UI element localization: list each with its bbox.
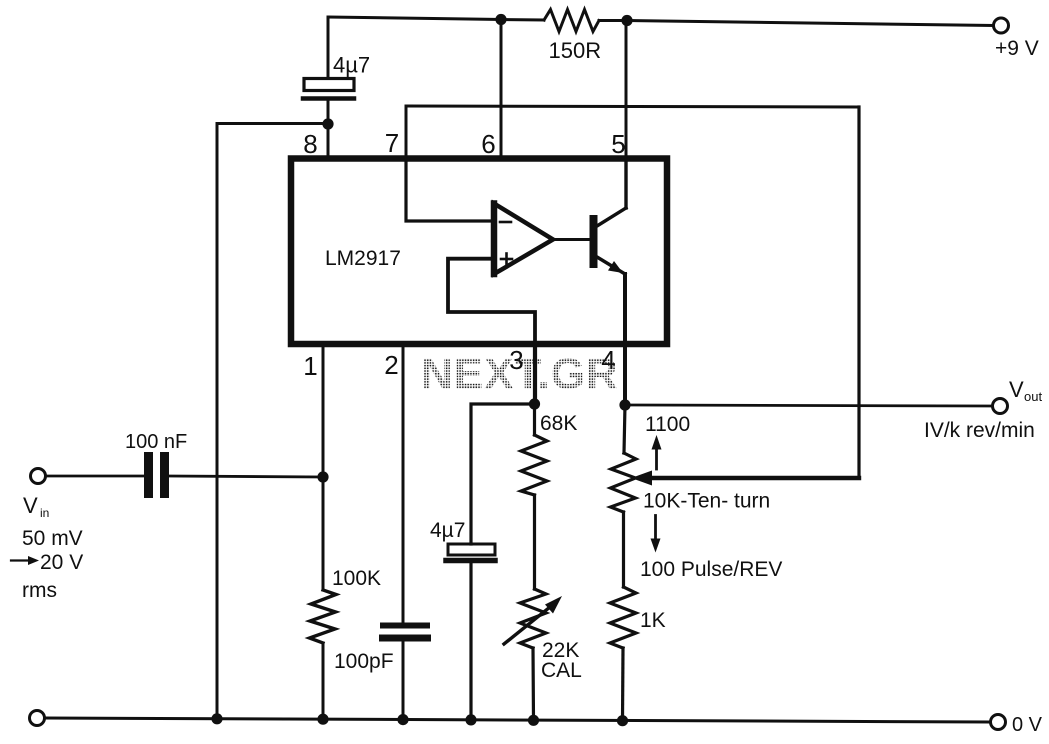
wire top supply rail left segment — [328, 17, 501, 20]
transistor Q1 emitter — [597, 257, 625, 274]
resistor 68K — [521, 435, 547, 495]
potentiometer 22K CAL zigzag — [520, 589, 546, 648]
wire pin5 vertical — [625, 21, 628, 159]
svg-text:4: 4 — [601, 345, 615, 375]
svg-text:100pF: 100pF — [334, 650, 394, 673]
wire pin7 vertical — [405, 106, 408, 158]
resistor 150R — [544, 10, 599, 32]
svg-text:out: out — [1024, 389, 1042, 404]
terminal 0V right — [991, 715, 1006, 730]
wire pin3 junction down to 68K — [533, 404, 536, 435]
resistor 1K — [610, 587, 636, 648]
wire 1K to ground rail — [621, 648, 625, 721]
node junction pin8 — [322, 118, 333, 129]
arrow up — [652, 435, 662, 469]
svg-text:V: V — [23, 493, 38, 518]
svg-text:150R: 150R — [549, 38, 602, 63]
terminal 0V left — [30, 711, 45, 726]
terminal +9V — [994, 18, 1009, 33]
svg-text:100 nF: 100 nF — [125, 431, 187, 453]
svg-text:50 mV: 50 mV — [22, 527, 83, 550]
transistor Q1 collector vertical — [624, 158, 627, 208]
node junction pin5 rail — [621, 15, 632, 26]
wire pin1 vertical — [322, 347, 325, 590]
arrow rms range — [11, 556, 39, 565]
wire pin4 junction to pot — [624, 405, 625, 453]
svg-text:5: 5 — [611, 129, 625, 159]
wire C2 to ground rail — [469, 563, 472, 720]
resistor 100K — [310, 590, 337, 643]
potentiometer 10K ten-turn zigzag — [611, 453, 637, 512]
svg-text:rms: rms — [22, 579, 57, 602]
wire left vertical down to ground rail — [216, 124, 219, 719]
wire pin7 inside box to op-amp minus input — [406, 158, 493, 221]
capacitor C2 4u7 — [446, 544, 495, 561]
wire C3 to pin1 branch — [169, 476, 323, 477]
arrow down — [651, 516, 661, 553]
capacitor C3 100nF — [144, 452, 169, 498]
wire op-amp plus input feedback — [448, 259, 535, 347]
node junction pin4 Vout — [619, 399, 630, 410]
svg-text:1100: 1100 — [645, 413, 690, 436]
potentiometer 22K arrowhead — [545, 596, 562, 614]
node junction pin3 — [529, 398, 540, 409]
wire 68K to 22K pot — [533, 495, 536, 589]
wire junction pin8 to left vertical — [217, 122, 328, 125]
op-amp feedback top wire from pin7 — [406, 106, 859, 107]
svg-text:6: 6 — [481, 129, 495, 159]
transistor Q1 base bar — [590, 215, 598, 268]
wire op-amp output to transistor base — [553, 238, 590, 241]
ground rail 0V — [45, 718, 990, 722]
wire top supply rail right segment — [599, 21, 993, 26]
node junction rail x403 — [397, 714, 408, 725]
svg-text:0 V: 0 V — [1012, 714, 1043, 736]
terminal Vin — [31, 469, 46, 484]
potentiometer 10K wiper arrow — [648, 476, 859, 480]
svg-text:+9 V: +9 V — [995, 37, 1039, 60]
node junction rail x534 — [528, 715, 539, 726]
node junction Vin pin1 — [317, 471, 328, 482]
svg-text:IV/k rev/min: IV/k rev/min — [924, 419, 1035, 442]
wire pin2 vertical — [402, 347, 405, 622]
wire top supply rail middle segment — [501, 18, 544, 22]
wire right vertical down to pot wiper — [857, 107, 860, 478]
svg-text:1: 1 — [303, 351, 317, 381]
transistor Q1 collector — [597, 208, 626, 226]
node junction rail x471 — [465, 714, 476, 725]
svg-text:4µ7: 4µ7 — [333, 53, 370, 78]
wire C4 to ground rail — [402, 642, 405, 720]
wire emitter down through pin4 — [623, 274, 627, 405]
wire 22K to ground rail — [531, 648, 535, 720]
wire pin6 vertical — [500, 20, 503, 159]
svg-text:100K: 100K — [332, 567, 381, 590]
svg-text:4µ7: 4µ7 — [430, 519, 465, 542]
svg-text:100 Pulse/REV: 100 Pulse/REV — [640, 558, 782, 581]
wire C1 to pin 8 — [327, 101, 330, 159]
svg-text:8: 8 — [303, 129, 317, 159]
capacitor C1 4u7 — [303, 79, 354, 99]
svg-text:1K: 1K — [640, 609, 666, 632]
terminal Vout — [993, 399, 1008, 414]
svg-text:7: 7 — [385, 128, 399, 158]
wire Vout — [625, 405, 992, 406]
svg-text:in: in — [40, 506, 49, 520]
wire pin3 junction to C2 branch — [471, 404, 534, 544]
capacitor C4 100pF — [379, 623, 431, 642]
svg-text:LM2917: LM2917 — [325, 247, 401, 270]
svg-text:20 V: 20 V — [40, 551, 83, 574]
wire pot to 1K — [622, 512, 625, 587]
svg-text:V: V — [1009, 377, 1024, 402]
svg-text:2: 2 — [384, 350, 398, 380]
potentiometer 22K arrow shaft — [504, 607, 550, 644]
op-amp plus sign — [501, 254, 512, 265]
op-amp U1a triangle — [494, 204, 553, 275]
wire pin3 down from box — [533, 347, 537, 404]
svg-text:10K-Ten- turn: 10K-Ten- turn — [643, 490, 770, 513]
IC U1 LM2917 box — [291, 159, 667, 345]
svg-text:68K: 68K — [540, 412, 577, 435]
op-amp minus sign — [500, 221, 511, 224]
svg-text:CAL: CAL — [541, 659, 582, 682]
node junction rail x323 — [317, 714, 328, 725]
node junction rail x622 — [617, 715, 628, 726]
wire Vin to C3 — [46, 475, 144, 478]
svg-text:3: 3 — [509, 345, 523, 375]
wire from rail down to C1 — [327, 17, 330, 79]
node junction pin6 rail — [495, 14, 506, 25]
transistor Q1 emitter arrowhead — [608, 261, 623, 273]
potentiometer 10K wiper arrowhead — [631, 471, 652, 486]
wire 100K to ground rail — [322, 643, 325, 719]
node junction rail x217 — [211, 713, 222, 724]
op-amp left edge thick — [491, 204, 498, 275]
